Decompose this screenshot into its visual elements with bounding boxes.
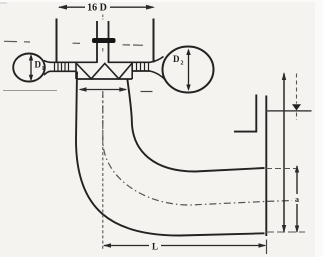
right piezometer tube (153, 19, 155, 63)
dimension a line lower segment (296, 204, 298, 232)
D1 neck bottom flare (44, 71, 50, 75)
svg-text:1: 1 (42, 66, 45, 72)
centerline straight dashed extension (102, 95, 104, 250)
water surface line (266, 110, 311, 112)
dimension L line left segment (104, 245, 149, 247)
page edge light top (0, 0, 323, 2)
horizontal datum dash segment 3 (73, 42, 81, 44)
dimension L left arrowhead (103, 243, 111, 247)
dimension 16D line left segment (59, 6, 85, 8)
venturi left thread tick 3 (61, 62, 63, 71)
D1 diameter bottom arrowhead (29, 75, 33, 82)
venturi top line right (109, 61, 151, 63)
venturi left thread tick 4 (64, 62, 66, 71)
pipe width dimension line (80, 89, 126, 91)
venturi body left edge (75, 62, 77, 79)
tank wall line (265, 96, 267, 237)
svg-text:D: D (173, 54, 180, 64)
venturi left thread tick 1 (54, 62, 56, 71)
venturi right thread tick 2 (140, 62, 142, 71)
overall height top arrowhead (282, 72, 286, 80)
pipe width left arrowhead (79, 87, 87, 91)
throat pipe right wall (108, 21, 110, 63)
venturi body bottom line (76, 78, 132, 80)
bend inner wall (127, 79, 264, 172)
svg-text:2: 2 (181, 61, 184, 67)
throat pipe centerline tick lower (102, 48, 104, 52)
venturi left thread tick 5 (68, 62, 70, 71)
venturi body right edge (131, 62, 133, 79)
D2 neck bottom flare (150, 71, 166, 81)
dimension L line right segment (161, 245, 265, 247)
horizontal datum dash segment 2 (24, 41, 30, 43)
dimension L right extension tick (266, 240, 268, 255)
overall height bottom arrowhead (282, 225, 286, 233)
venturi right thread tick 1 (136, 62, 138, 71)
pipe width dim faint left extension (3, 90, 57, 92)
horizontal datum dash segment 5 (133, 44, 143, 46)
inner wall dashed extension (266, 168, 296, 170)
svg-text:16 D: 16 D (87, 3, 107, 14)
dimension 16D left arrowhead (58, 5, 67, 10)
venturi right tube bottom line (132, 70, 150, 72)
venturi left tube bottom line (50, 70, 77, 72)
bend centerline dash-dot (103, 91, 292, 205)
venturi right thread tick 3 (144, 62, 146, 71)
tank entry L-shape (234, 95, 256, 132)
dimension 16D right arrowhead (146, 5, 155, 10)
pipe width right arrowhead (119, 87, 127, 91)
dimension 16D line right segment (110, 6, 153, 8)
horizontal datum dash segment 1 (4, 40, 17, 42)
svg-text:D: D (35, 60, 42, 70)
D2 diameter top arrowhead (186, 49, 190, 56)
overall height dimension line (283, 74, 285, 233)
flange on throat pipe (92, 38, 116, 43)
svg-text:a: a (295, 195, 299, 204)
horizontal datum dash segment 4 (123, 44, 131, 46)
water level marker triangle (292, 104, 301, 110)
corner smudge (0, 0, 7, 4)
water level dash-dot lower (296, 113, 298, 121)
dimension a bottom arrowhead (295, 226, 299, 234)
D1 diameter arrow line (30, 56, 32, 80)
venturi left thread tick 2 (57, 62, 59, 71)
water level dash-dot upper (296, 74, 298, 104)
page edge light right (315, 0, 323, 257)
D2 diameter arrow line (188, 50, 190, 90)
D1 diameter top arrowhead (29, 54, 33, 61)
venturi top line left (50, 61, 97, 63)
left piezometer tube (56, 19, 58, 63)
D2 diameter bottom arrowhead (186, 85, 190, 92)
dimension a line upper segment (296, 166, 298, 194)
bend outer wall (76, 72, 265, 236)
dimension a top arrowhead (295, 165, 299, 173)
venturi cone zigzag (76, 63, 132, 79)
venturi right thread tick 4 (148, 62, 150, 71)
D1 neck top flare (44, 61, 50, 63)
throat pipe centerline tick (102, 15, 104, 20)
D2 neck top flare (150, 57, 164, 63)
throat pipe left wall (96, 21, 98, 63)
dimension L right arrowhead (259, 243, 267, 247)
pipe width dim right dash (141, 91, 153, 93)
inlet circle D1 (13, 54, 45, 82)
outlet circle D2 (163, 47, 214, 93)
svg-text:L: L (152, 242, 158, 252)
bottom wall dashed extension (266, 231, 305, 233)
